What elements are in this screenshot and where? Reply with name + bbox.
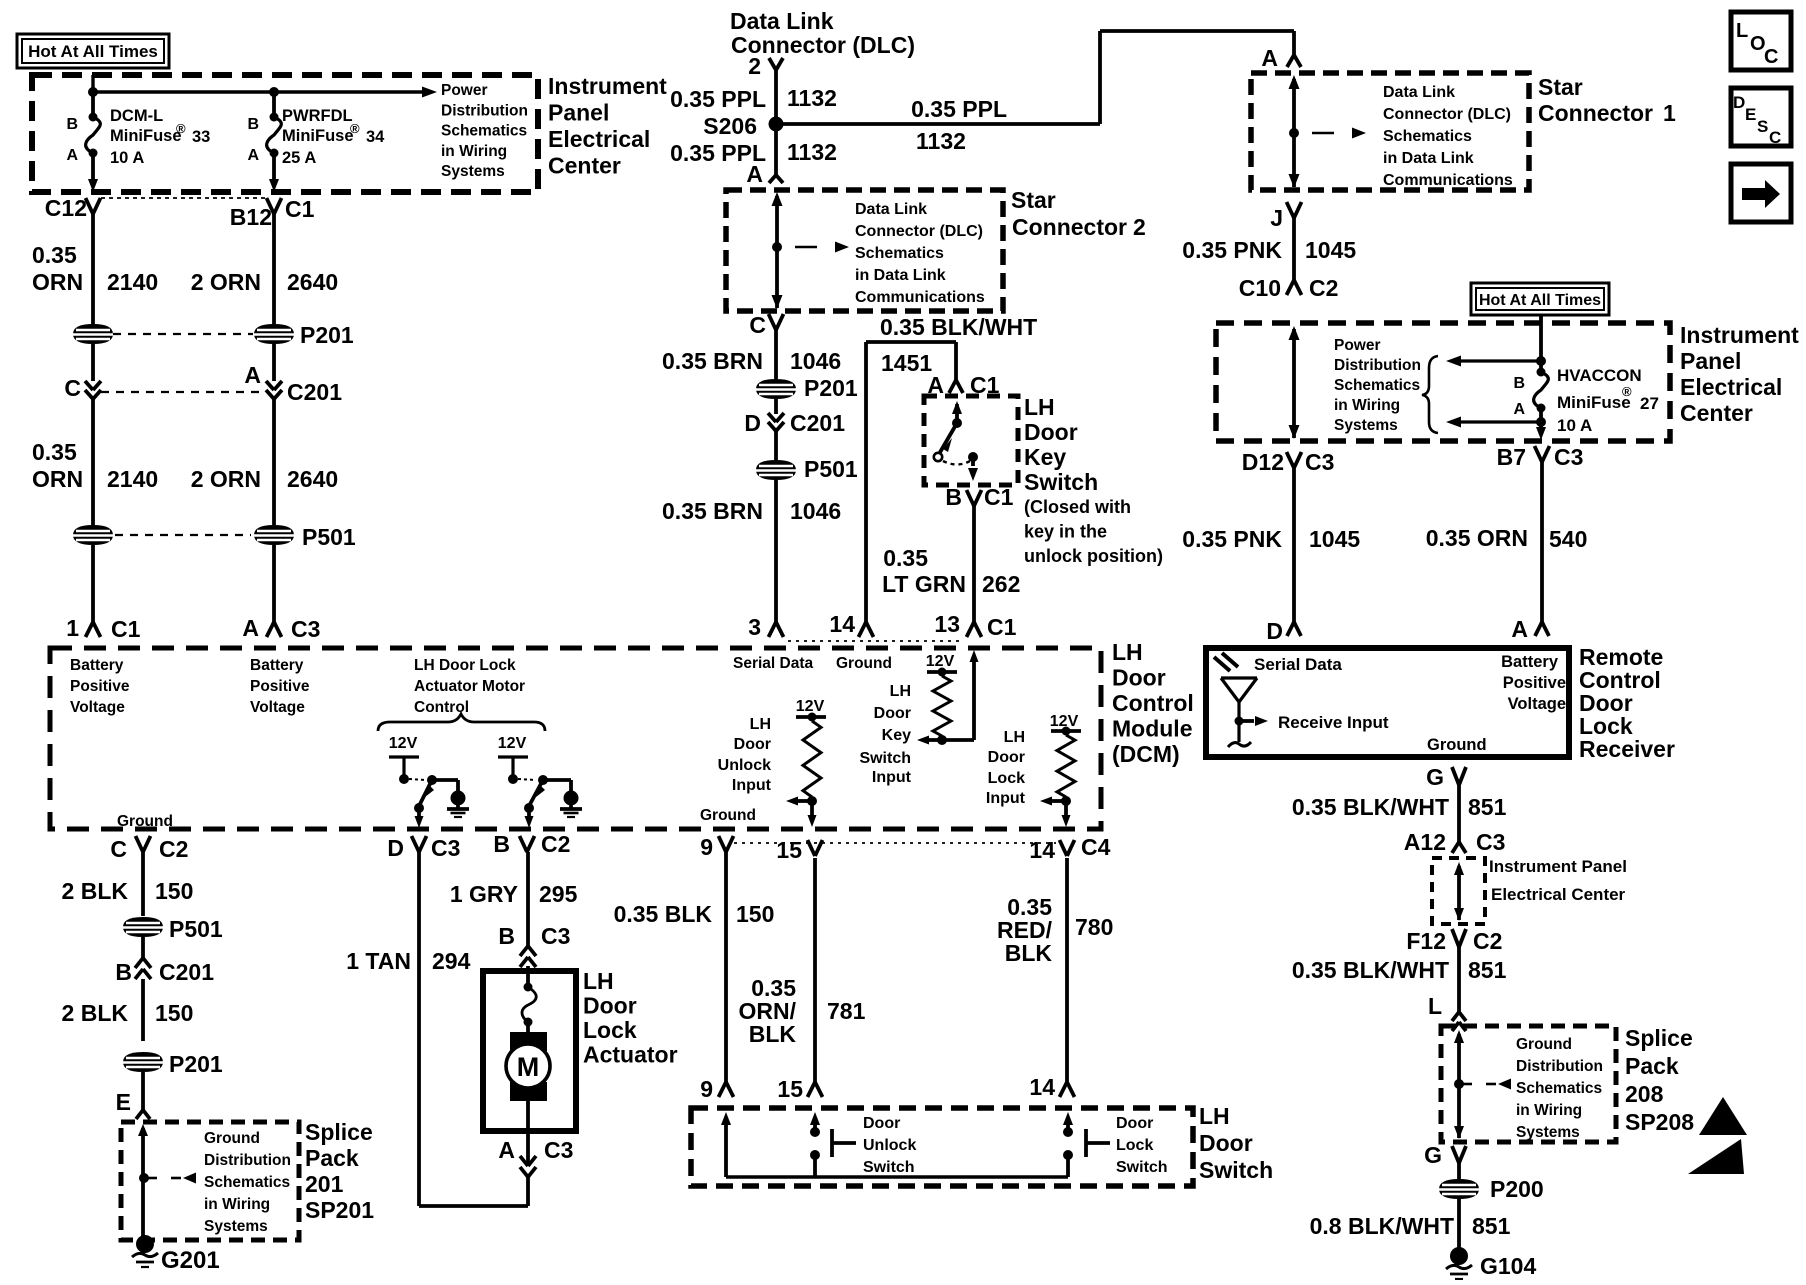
- svg-text:781: 781: [827, 998, 866, 1024]
- svg-text:1 GRY: 1 GRY: [450, 881, 518, 907]
- svg-text:Electrical: Electrical: [548, 126, 650, 152]
- svg-text:D: D: [1266, 618, 1283, 644]
- svg-text:Center: Center: [1680, 400, 1753, 426]
- svg-text:Ground: Ground: [117, 813, 173, 830]
- svg-text:LH: LH: [1024, 394, 1055, 420]
- svg-text:0.35 PPL: 0.35 PPL: [911, 96, 1007, 122]
- svg-text:C2: C2: [159, 836, 188, 862]
- svg-text:Electrical Center: Electrical Center: [1491, 885, 1626, 904]
- svg-text:C4: C4: [1081, 834, 1111, 860]
- svg-text:SP208: SP208: [1625, 1109, 1694, 1135]
- svg-text:B: B: [66, 116, 78, 133]
- svg-text:Door: Door: [874, 705, 911, 722]
- svg-text:B: B: [115, 959, 132, 985]
- svg-text:D: D: [387, 835, 404, 861]
- svg-text:Hot At All Times: Hot At All Times: [28, 42, 158, 61]
- svg-text:Key: Key: [1024, 444, 1066, 470]
- svg-text:C: C: [110, 836, 127, 862]
- svg-text:(DCM): (DCM): [1112, 741, 1180, 767]
- svg-text:Positive: Positive: [250, 678, 310, 695]
- svg-text:150: 150: [736, 901, 774, 927]
- svg-text:Power: Power: [441, 82, 488, 99]
- svg-text:MiniFuse: MiniFuse: [110, 127, 182, 145]
- svg-text:G: G: [1426, 764, 1444, 790]
- svg-text:2 BLK: 2 BLK: [62, 1000, 129, 1026]
- svg-text:Input: Input: [986, 790, 1026, 807]
- svg-text:14: 14: [1029, 837, 1055, 863]
- svg-text:C2: C2: [541, 831, 570, 857]
- svg-text:HVACCON: HVACCON: [1557, 366, 1642, 385]
- svg-text:Distribution: Distribution: [441, 102, 528, 119]
- svg-text:A: A: [242, 615, 259, 641]
- svg-text:Door: Door: [1116, 1115, 1153, 1132]
- svg-text:1: 1: [1663, 100, 1676, 126]
- svg-text:Ground: Ground: [204, 1130, 260, 1147]
- svg-text:Ground: Ground: [1516, 1036, 1572, 1053]
- svg-text:0.35 BRN: 0.35 BRN: [662, 348, 763, 374]
- svg-text:ORN: ORN: [32, 466, 83, 492]
- svg-text:ORN: ORN: [32, 269, 83, 295]
- svg-text:C3: C3: [291, 616, 320, 642]
- svg-text:1046: 1046: [790, 348, 841, 374]
- svg-text:in Wiring: in Wiring: [1516, 1102, 1582, 1119]
- svg-text:in Data Link: in Data Link: [1383, 150, 1474, 167]
- svg-text:Receiver: Receiver: [1579, 736, 1675, 762]
- svg-text:Systems: Systems: [441, 163, 505, 180]
- svg-text:201: 201: [305, 1171, 344, 1197]
- svg-text:27: 27: [1640, 394, 1659, 413]
- svg-text:G: G: [1424, 1142, 1442, 1168]
- svg-text:12V: 12V: [389, 735, 418, 752]
- svg-text:P201: P201: [169, 1051, 223, 1077]
- svg-text:C201: C201: [159, 959, 214, 985]
- svg-text:Input: Input: [732, 777, 772, 794]
- svg-text:in Wiring: in Wiring: [204, 1196, 270, 1213]
- svg-text:C1: C1: [111, 616, 141, 642]
- svg-text:Panel: Panel: [1680, 348, 1741, 374]
- svg-text:0.35 ORN: 0.35 ORN: [1426, 525, 1528, 551]
- svg-text:Switch: Switch: [1024, 469, 1098, 495]
- svg-text:Data Link: Data Link: [730, 8, 834, 34]
- svg-text:C201: C201: [790, 410, 845, 436]
- svg-text:P501: P501: [169, 916, 223, 942]
- svg-text:Pack: Pack: [305, 1145, 359, 1171]
- svg-text:10 A: 10 A: [110, 149, 144, 167]
- svg-text:25 A: 25 A: [282, 149, 316, 167]
- svg-text:1451: 1451: [881, 350, 932, 376]
- svg-text:Battery: Battery: [250, 657, 304, 674]
- svg-text:14: 14: [829, 611, 855, 637]
- svg-text:851: 851: [1468, 957, 1507, 983]
- svg-text:C1: C1: [285, 196, 315, 222]
- svg-text:LH: LH: [1112, 639, 1143, 665]
- svg-text:Distribution: Distribution: [1516, 1058, 1603, 1075]
- svg-text:0.8 BLK/WHT: 0.8 BLK/WHT: [1310, 1213, 1454, 1239]
- svg-text:Distribution: Distribution: [1334, 357, 1421, 374]
- svg-text:2640: 2640: [287, 466, 338, 492]
- svg-text:BLK: BLK: [749, 1021, 797, 1047]
- svg-text:0.35: 0.35: [883, 545, 928, 571]
- svg-text:P501: P501: [302, 524, 356, 550]
- svg-text:C12: C12: [45, 195, 87, 221]
- svg-text:B: B: [1513, 375, 1525, 392]
- svg-text:MiniFuse: MiniFuse: [282, 127, 354, 145]
- svg-text:1132: 1132: [787, 85, 837, 111]
- svg-text:B: B: [945, 484, 962, 510]
- svg-text:15: 15: [776, 837, 802, 863]
- svg-text:Instrument: Instrument: [1680, 322, 1799, 348]
- svg-text:Switch: Switch: [1116, 1159, 1168, 1176]
- svg-text:2640: 2640: [287, 269, 338, 295]
- svg-text:Power: Power: [1334, 337, 1381, 354]
- svg-text:Switch: Switch: [859, 750, 911, 767]
- svg-text:14: 14: [1029, 1074, 1055, 1100]
- svg-text:Splice: Splice: [305, 1119, 373, 1145]
- svg-text:Pack: Pack: [1625, 1053, 1679, 1079]
- svg-text:Star: Star: [1538, 74, 1583, 100]
- svg-text:1045: 1045: [1309, 526, 1360, 552]
- svg-text:B: B: [498, 923, 515, 949]
- svg-text:Schematics: Schematics: [1334, 377, 1420, 394]
- svg-text:Input: Input: [872, 769, 912, 786]
- svg-text:C3: C3: [1554, 444, 1583, 470]
- svg-text:P201: P201: [300, 322, 354, 348]
- svg-text:Star: Star: [1011, 187, 1056, 213]
- svg-text:0.35 PNK: 0.35 PNK: [1182, 526, 1282, 552]
- svg-text:P200: P200: [1490, 1176, 1544, 1202]
- svg-text:12V: 12V: [498, 735, 527, 752]
- svg-text:L: L: [1736, 20, 1748, 42]
- svg-text:Actuator: Actuator: [583, 1042, 678, 1068]
- svg-text:Data Link: Data Link: [1383, 84, 1455, 101]
- svg-text:A: A: [1261, 45, 1278, 71]
- svg-text:C: C: [1764, 46, 1778, 68]
- svg-text:in Data Link: in Data Link: [855, 267, 946, 284]
- svg-text:2140: 2140: [107, 269, 158, 295]
- svg-text:0.35: 0.35: [32, 439, 77, 465]
- svg-text:PWRFDL: PWRFDL: [282, 107, 353, 125]
- svg-text:1132: 1132: [916, 128, 966, 154]
- svg-text:Ground: Ground: [700, 807, 756, 824]
- svg-text:Electrical: Electrical: [1680, 374, 1782, 400]
- svg-text:Connector (DLC): Connector (DLC): [1383, 106, 1511, 123]
- svg-text:0.35 PNK: 0.35 PNK: [1182, 237, 1282, 263]
- svg-text:A: A: [498, 1137, 515, 1163]
- svg-text:540: 540: [1549, 526, 1587, 552]
- svg-text:0.35 BLK/WHT: 0.35 BLK/WHT: [1292, 794, 1449, 820]
- svg-text:LH: LH: [750, 716, 771, 733]
- svg-text:Unlock: Unlock: [718, 757, 771, 774]
- svg-text:Schematics: Schematics: [855, 245, 944, 262]
- svg-text:B12: B12: [230, 204, 272, 230]
- svg-text:C2: C2: [1473, 928, 1502, 954]
- svg-text:B: B: [493, 831, 510, 857]
- svg-text:Door: Door: [863, 1115, 900, 1132]
- svg-text:C: C: [749, 312, 766, 338]
- svg-text:®: ®: [176, 121, 186, 136]
- svg-text:LH: LH: [890, 683, 911, 700]
- svg-text:Door: Door: [1024, 419, 1078, 445]
- svg-text:0.35 BRN: 0.35 BRN: [662, 498, 763, 524]
- svg-text:Battery: Battery: [1501, 653, 1559, 671]
- svg-text:LH: LH: [583, 968, 614, 994]
- svg-text:E: E: [1745, 105, 1756, 124]
- svg-text:34: 34: [366, 128, 385, 146]
- svg-text:12V: 12V: [796, 698, 825, 715]
- svg-text:Door: Door: [583, 993, 637, 1019]
- svg-text:0.35 PPL: 0.35 PPL: [670, 86, 766, 112]
- svg-text:Control: Control: [1112, 690, 1194, 716]
- svg-text:Key: Key: [882, 727, 911, 744]
- svg-text:0.35 BLK/WHT: 0.35 BLK/WHT: [880, 314, 1037, 340]
- svg-text:Communications: Communications: [855, 289, 985, 306]
- svg-text:Ground: Ground: [1427, 736, 1487, 754]
- svg-text:E: E: [116, 1089, 131, 1115]
- svg-text:Positive: Positive: [1503, 674, 1566, 692]
- svg-text:1046: 1046: [790, 498, 841, 524]
- svg-text:C3: C3: [431, 835, 460, 861]
- svg-text:key in the: key in the: [1024, 522, 1107, 542]
- svg-text:Door: Door: [988, 749, 1025, 766]
- svg-text:Serial Data: Serial Data: [733, 655, 814, 672]
- svg-text:P501: P501: [804, 456, 858, 482]
- svg-text:C1: C1: [987, 614, 1017, 640]
- svg-text:LH: LH: [1004, 729, 1025, 746]
- svg-text:Data Link: Data Link: [855, 201, 927, 218]
- svg-text:2: 2: [1133, 214, 1146, 240]
- svg-text:C3: C3: [541, 923, 570, 949]
- svg-text:33: 33: [192, 128, 210, 146]
- svg-text:262: 262: [982, 571, 1020, 597]
- svg-text:15: 15: [777, 1076, 803, 1102]
- svg-text:J: J: [1270, 205, 1283, 231]
- svg-text:LH Door Lock: LH Door Lock: [414, 657, 516, 674]
- svg-text:Communications: Communications: [1383, 172, 1513, 189]
- svg-text:Schematics: Schematics: [204, 1174, 290, 1191]
- svg-text:A: A: [247, 147, 259, 164]
- svg-text:S: S: [1757, 117, 1768, 136]
- svg-text:9: 9: [700, 834, 713, 860]
- svg-text:G201: G201: [161, 1247, 220, 1274]
- svg-text:in Wiring: in Wiring: [441, 143, 507, 160]
- svg-text:D: D: [744, 410, 761, 436]
- svg-text:®: ®: [350, 121, 360, 136]
- svg-text:Panel: Panel: [548, 100, 609, 126]
- svg-text:0.35 BLK: 0.35 BLK: [614, 901, 713, 927]
- svg-text:A: A: [1511, 616, 1528, 642]
- svg-text:L: L: [1428, 993, 1442, 1019]
- svg-text:1: 1: [66, 615, 79, 641]
- svg-text:Positive: Positive: [70, 678, 130, 695]
- svg-text:Serial Data: Serial Data: [1254, 655, 1342, 674]
- svg-text:0.35 BLK/WHT: 0.35 BLK/WHT: [1292, 957, 1449, 983]
- svg-text:M: M: [517, 1052, 540, 1082]
- svg-text:SP201: SP201: [305, 1197, 374, 1223]
- svg-text:C3: C3: [544, 1137, 573, 1163]
- svg-text:Receive Input: Receive Input: [1278, 713, 1389, 732]
- svg-text:Instrument Panel: Instrument Panel: [1489, 857, 1627, 876]
- svg-text:Voltage: Voltage: [1508, 695, 1566, 713]
- svg-text:C: C: [64, 375, 81, 401]
- svg-text:Switch: Switch: [863, 1159, 915, 1176]
- svg-text:13: 13: [934, 611, 960, 637]
- svg-text:(Closed with: (Closed with: [1024, 497, 1131, 517]
- svg-text:BLK: BLK: [1005, 940, 1053, 966]
- svg-text:Connector: Connector: [1538, 100, 1653, 126]
- svg-text:Schematics: Schematics: [1383, 128, 1472, 145]
- svg-text:F12: F12: [1406, 928, 1446, 954]
- svg-text:Voltage: Voltage: [70, 699, 125, 716]
- svg-text:C2: C2: [1309, 275, 1338, 301]
- svg-text:1045: 1045: [1305, 237, 1356, 263]
- svg-text:Distribution: Distribution: [204, 1152, 291, 1169]
- svg-text:2140: 2140: [107, 466, 158, 492]
- svg-text:Lock: Lock: [1116, 1137, 1153, 1154]
- svg-text:9: 9: [700, 1076, 713, 1102]
- svg-text:Schematics: Schematics: [441, 123, 527, 140]
- svg-text:150: 150: [155, 878, 193, 904]
- svg-text:Switch: Switch: [1199, 1157, 1273, 1183]
- svg-text:A: A: [66, 147, 78, 164]
- svg-text:unlock position): unlock position): [1024, 546, 1163, 566]
- svg-text:Lock: Lock: [988, 770, 1025, 787]
- svg-text:C10: C10: [1239, 275, 1281, 301]
- svg-text:208: 208: [1625, 1081, 1664, 1107]
- svg-text:12V: 12V: [926, 653, 955, 670]
- svg-text:LT GRN: LT GRN: [882, 571, 966, 597]
- svg-text:Battery: Battery: [70, 657, 124, 674]
- svg-text:10 A: 10 A: [1557, 416, 1592, 435]
- svg-text:2: 2: [748, 53, 761, 79]
- svg-text:Ground: Ground: [836, 655, 892, 672]
- svg-text:D12: D12: [1242, 449, 1284, 475]
- svg-text:Connector: Connector: [1012, 214, 1127, 240]
- svg-text:Actuator Motor: Actuator Motor: [414, 678, 525, 695]
- svg-text:150: 150: [155, 1000, 193, 1026]
- svg-text:1132: 1132: [787, 139, 837, 165]
- svg-text:DCM-L: DCM-L: [110, 107, 163, 125]
- svg-text:Center: Center: [548, 153, 621, 179]
- svg-text:C3: C3: [1476, 829, 1505, 855]
- svg-text:A12: A12: [1404, 829, 1446, 855]
- svg-text:Schematics: Schematics: [1516, 1080, 1602, 1097]
- svg-text:Systems: Systems: [204, 1218, 268, 1235]
- svg-text:Connector (DLC): Connector (DLC): [855, 223, 983, 240]
- svg-text:0.35: 0.35: [32, 242, 77, 268]
- svg-text:851: 851: [1472, 1213, 1511, 1239]
- svg-text:780: 780: [1075, 914, 1113, 940]
- svg-text:MiniFuse: MiniFuse: [1557, 393, 1631, 412]
- svg-text:B: B: [247, 116, 259, 133]
- svg-text:Door: Door: [1112, 665, 1166, 691]
- svg-text:3: 3: [748, 614, 761, 640]
- svg-text:295: 295: [539, 881, 578, 907]
- svg-text:A: A: [244, 362, 261, 388]
- svg-text:Instrument: Instrument: [548, 73, 667, 99]
- svg-text:B7: B7: [1497, 444, 1526, 470]
- svg-text:LH: LH: [1199, 1103, 1230, 1129]
- svg-text:A: A: [746, 161, 763, 187]
- svg-text:A: A: [1513, 401, 1525, 418]
- svg-text:Systems: Systems: [1516, 1124, 1580, 1141]
- svg-text:Hot At All Times: Hot At All Times: [1479, 292, 1601, 309]
- svg-text:2 BLK: 2 BLK: [62, 878, 129, 904]
- svg-text:C201: C201: [287, 379, 342, 405]
- svg-text:G104: G104: [1480, 1253, 1536, 1279]
- svg-text:Door: Door: [734, 736, 771, 753]
- svg-text:Door: Door: [1199, 1130, 1253, 1156]
- svg-text:Unlock: Unlock: [863, 1137, 916, 1154]
- svg-text:Lock: Lock: [583, 1017, 637, 1043]
- svg-text:C3: C3: [1305, 449, 1334, 475]
- svg-text:P201: P201: [804, 375, 858, 401]
- svg-text:Voltage: Voltage: [250, 699, 305, 716]
- svg-text:S206: S206: [703, 113, 757, 139]
- svg-text:851: 851: [1468, 794, 1507, 820]
- svg-text:294: 294: [432, 948, 471, 974]
- svg-text:2 ORN: 2 ORN: [191, 269, 261, 295]
- svg-text:C1: C1: [984, 484, 1014, 510]
- svg-text:Module: Module: [1112, 716, 1193, 742]
- svg-text:2 ORN: 2 ORN: [191, 466, 261, 492]
- svg-text:C: C: [1769, 128, 1781, 147]
- svg-text:D: D: [1733, 93, 1745, 112]
- svg-text:Splice: Splice: [1625, 1025, 1693, 1051]
- svg-text:1 TAN: 1 TAN: [346, 948, 411, 974]
- svg-text:Systems: Systems: [1334, 417, 1398, 434]
- svg-text:in Wiring: in Wiring: [1334, 397, 1400, 414]
